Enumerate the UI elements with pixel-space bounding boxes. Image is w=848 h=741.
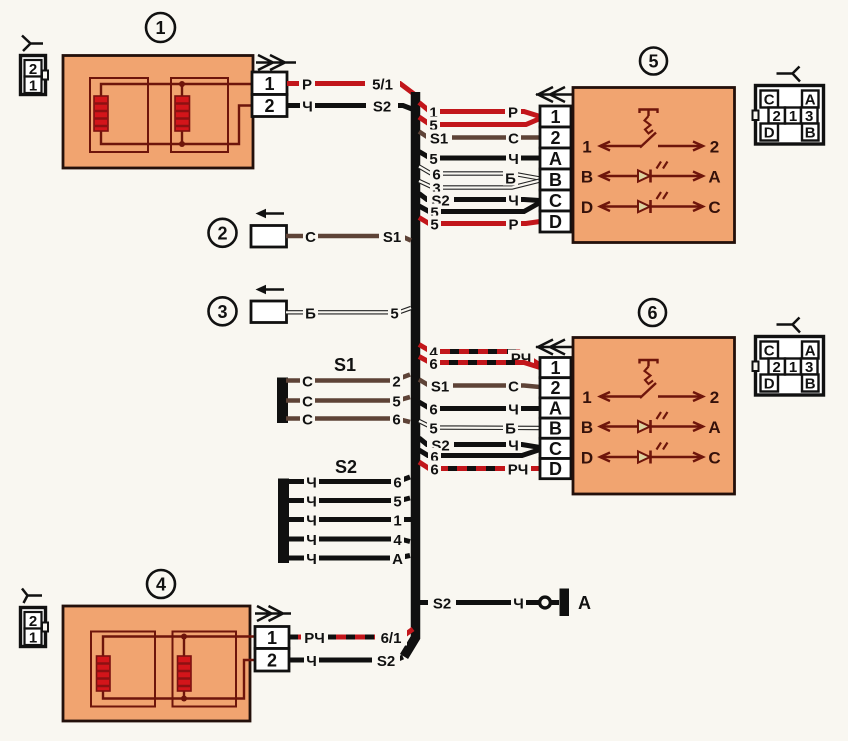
svg-text:6: 6 (429, 402, 437, 419)
actuator 4 inner housing left (91, 632, 155, 707)
svg-text:S1: S1 (334, 355, 356, 375)
svg-text:C: C (549, 439, 562, 459)
ground wire stub to body point (551, 600, 560, 605)
svg-text:B: B (549, 419, 562, 439)
svg-text:1: 1 (29, 78, 37, 95)
wire RCh (red/black) pin1 actuator4 to trunk node 6/1 (289, 629, 413, 648)
wire B (white) component3 to trunk node 5 (286, 304, 411, 322)
svg-text:Б: Б (505, 421, 516, 438)
wire C (grey) component2 to trunk node S1 (286, 228, 411, 247)
cell D (761, 124, 779, 141)
svg-text:С: С (302, 394, 313, 411)
wire 5 (black) trunk to switch5 pinA (419, 150, 540, 168)
wire S1 (grey) trunk to switch5 pin2 (419, 130, 540, 148)
connector of actuator 4, pin 1 (255, 627, 289, 649)
svg-text:С: С (708, 198, 720, 217)
svg-text:A: A (549, 398, 562, 418)
callout 5 (640, 48, 667, 75)
svg-text:5: 5 (393, 494, 401, 511)
svg-text:S1: S1 (431, 379, 449, 396)
mating connector face X4 (pins 2/1) bottom-left (21, 608, 49, 647)
switch 5 connector pin A (540, 148, 571, 169)
plug direction arrow of connector 4 (255, 606, 291, 621)
svg-text:S2: S2 (377, 653, 395, 670)
svg-text:5/1: 5/1 (372, 77, 393, 94)
wire P (pink) pin1 actuator1 to trunk node 5/1 (287, 75, 414, 95)
svg-text:Ч: Ч (513, 596, 524, 613)
splice S2 wire to trunk node 1 (black) (287, 512, 411, 530)
connector of actuator 1, pin 2 (252, 95, 287, 117)
cell A (802, 91, 819, 108)
svg-text:Р: Р (302, 77, 312, 94)
connector of actuator 4, pin 2 (255, 649, 289, 672)
svg-text:А: А (578, 593, 591, 613)
actuator 1 inner housing left (90, 78, 148, 152)
harness fork symbol bottom-left (22, 589, 42, 604)
svg-text:РЧ: РЧ (508, 462, 529, 479)
svg-text:Б: Б (505, 171, 516, 188)
svg-text:С: С (302, 412, 313, 429)
LED row D-C (600, 205, 703, 208)
spring zigzag (645, 116, 654, 134)
junction dots (181, 634, 187, 640)
svg-text:6/1: 6/1 (381, 630, 402, 647)
switch 6 connector pin 1 (540, 358, 571, 379)
wire 6 (white) trunk to switch5 pinB (419, 166, 540, 184)
winding L2 (178, 656, 192, 691)
svg-text:5: 5 (429, 421, 437, 438)
switch 5 connector pin 1 (540, 106, 571, 127)
svg-text:Ч: Ч (306, 532, 317, 549)
callout 6 (639, 299, 666, 326)
svg-text:S1: S1 (383, 229, 401, 246)
svg-text:6: 6 (392, 412, 400, 429)
splice S1 bus bar (277, 378, 288, 424)
wire 5 (pink) trunk to switch5 pin1 (419, 117, 540, 135)
svg-text:6: 6 (393, 475, 401, 492)
actuator 1 inner housing right (171, 78, 228, 152)
svg-text:Ч: Ч (508, 151, 519, 168)
wire 4 (red/black) trunk to switch6 pin1 (419, 344, 540, 368)
svg-text:2: 2 (550, 128, 560, 148)
wire S1 (grey) trunk to switch6 pin2 (419, 378, 540, 396)
body ground point A bar (560, 589, 570, 617)
svg-text:2: 2 (267, 651, 277, 671)
svg-text:РЧ: РЧ (304, 630, 325, 647)
splice S2 wire to trunk node A (black) (287, 550, 410, 568)
mating connector face of switch 5 (pins C A 2 1 3 D B) (753, 67, 824, 145)
svg-text:S2: S2 (335, 457, 357, 477)
svg-text:А: А (708, 168, 720, 187)
svg-text:1: 1 (29, 630, 37, 647)
svg-text:A: A (805, 92, 816, 109)
callout 4 (147, 570, 175, 598)
svg-text:2: 2 (550, 378, 560, 398)
cell B (802, 124, 819, 141)
contact row 1-2 (600, 145, 703, 148)
svg-text:Ч: Ч (508, 438, 519, 455)
svg-text:1: 1 (264, 74, 274, 94)
svg-text:5: 5 (429, 151, 437, 168)
svg-text:6: 6 (647, 303, 657, 323)
svg-text:С: С (508, 379, 519, 396)
actuator 1 top wire (101, 84, 252, 96)
splice S1 wire to trunk node 6 (grey) (286, 411, 410, 429)
switch 6 connector pin B (540, 418, 571, 439)
svg-text:4: 4 (156, 575, 166, 595)
svg-text:S1: S1 (430, 131, 448, 148)
svg-text:C: C (549, 191, 562, 211)
svg-text:Ч: Ч (306, 551, 317, 568)
switch 6 connector pin C (540, 438, 571, 459)
svg-text:1: 1 (550, 107, 560, 127)
svg-text:B: B (549, 170, 562, 190)
wire 6 (black) trunk to switch6 pinC (419, 448, 540, 466)
wire 5 (white) trunk to switch6 pinB (419, 420, 540, 438)
svg-text:4: 4 (393, 532, 402, 549)
svg-text:С: С (508, 131, 519, 148)
actuator 1 right branch wire (181, 84, 183, 144)
main harness trunk (404, 92, 416, 657)
switch 6 connector pin 2 (540, 378, 571, 399)
svg-text:1: 1 (550, 358, 560, 378)
central door-lock switch 5 body (573, 88, 735, 243)
winding L1 (97, 656, 111, 691)
component 3 box (illumination feed) (251, 285, 287, 323)
splice S2 wire to trunk node 4 (black) (287, 531, 410, 549)
svg-text:5: 5 (390, 305, 398, 322)
component 2 box (relay/fuse feed) (251, 209, 287, 247)
actuator 1 bottom wire (101, 106, 252, 145)
svg-text:1: 1 (393, 513, 401, 530)
svg-text:1: 1 (582, 138, 591, 157)
cell 1 (785, 108, 801, 124)
svg-text:3: 3 (805, 108, 813, 125)
wire 1 (pink) trunk to switch5 pin1 (419, 103, 540, 122)
plug direction arrow of switch 6 connector (536, 340, 573, 355)
splice S1 wire to trunk node 2 (grey) (286, 373, 410, 391)
wire 5 (black) trunk to switch5 pinC (419, 203, 540, 222)
svg-text:D: D (581, 198, 593, 217)
switch 5 connector pin B (540, 169, 571, 190)
svg-text:Ч: Ч (306, 513, 317, 530)
wire 5 (pink) trunk to switch5 pinD (419, 216, 540, 234)
wire 3 (white) trunk to switch5 pinB (419, 170, 540, 198)
switch 6 connector pin D (540, 459, 571, 480)
svg-text:A: A (549, 149, 562, 169)
svg-text:Р: Р (508, 217, 518, 234)
svg-text:5: 5 (430, 217, 438, 234)
callout 3 (209, 297, 237, 325)
winding L1 (94, 96, 108, 131)
wire Ch (black) pin2 actuator1 to trunk node S2 (287, 97, 412, 116)
svg-text:C: C (764, 92, 775, 109)
svg-text:2: 2 (264, 96, 274, 116)
junction dots (179, 81, 185, 87)
wire Ch (black) pin2 actuator4 to trunk end S2 (289, 652, 403, 671)
svg-text:2: 2 (710, 138, 719, 157)
door lock actuator 1 (front left door) (63, 56, 253, 169)
door-lock switch 6 body (573, 338, 735, 495)
connector of actuator 1, pin 1 (252, 72, 287, 95)
splice S2 wire to trunk node 5 (black) (287, 493, 410, 511)
switch 5 connector pin D (540, 211, 571, 232)
plug direction arrow of connector 1 (256, 55, 296, 70)
svg-text:2: 2 (773, 108, 781, 125)
wire S2 (black) trunk to switch5 pinC (419, 192, 540, 210)
svg-text:2: 2 (392, 374, 400, 391)
actuator 4 right branch wire (183, 637, 185, 699)
svg-text:D: D (549, 459, 562, 479)
svg-text:Ч: Ч (302, 99, 313, 116)
svg-text:S2: S2 (373, 99, 391, 116)
splice S2 bus bar (278, 479, 289, 564)
svg-text:С: С (305, 229, 316, 246)
svg-text:2: 2 (29, 61, 37, 78)
svg-text:Б: Б (305, 305, 316, 322)
switch 6 connector pin A (540, 398, 571, 419)
svg-text:Р: Р (508, 105, 518, 122)
harness fork symbol top-left (22, 36, 43, 52)
wire 6 (black) trunk to switch6 pinA (419, 401, 540, 419)
svg-text:3: 3 (217, 302, 227, 322)
svg-text:1: 1 (267, 628, 277, 648)
splice S2 wire to trunk node 6 (black) (287, 474, 410, 492)
svg-text:D: D (549, 212, 562, 232)
harness fork symbol (777, 67, 801, 82)
svg-text:S2: S2 (433, 596, 451, 613)
svg-text:5: 5 (648, 52, 658, 72)
actuator 4 top wire (103, 637, 255, 657)
cell 2 (769, 108, 786, 124)
switch lever (640, 133, 656, 148)
svg-text:1: 1 (789, 108, 797, 125)
plug direction arrow of switch 5 connector (536, 87, 573, 102)
switch 5 internals: button, contact 1-2, LEDs B-A and D-C (581, 110, 721, 218)
winding L2 (175, 96, 190, 131)
svg-text:Ч: Ч (508, 193, 519, 210)
wire 6 (red/black) trunk to switch6 pinD (419, 461, 540, 479)
svg-text:Ч: Ч (306, 653, 317, 670)
switch 5 connector pin 2 (540, 127, 571, 148)
wire 6 (red/black) trunk to switch6 pin1 (419, 355, 540, 373)
svg-text:6: 6 (429, 356, 437, 373)
actuator 4 bottom wire (103, 660, 255, 699)
svg-text:Ч: Ч (306, 475, 317, 492)
switch 5 connector pin C (540, 190, 571, 211)
svg-text:С: С (302, 374, 313, 391)
svg-text:2: 2 (217, 223, 227, 243)
ground eyelet ring (540, 597, 551, 608)
svg-text:2: 2 (29, 613, 37, 630)
mating connector face of switch 6 (pins C A 2 1 3 D B) (753, 318, 824, 396)
svg-text:Ч: Ч (508, 402, 519, 419)
svg-text:5: 5 (392, 394, 400, 411)
svg-text:B: B (805, 125, 816, 142)
callout 1 (146, 13, 175, 42)
svg-text:1: 1 (155, 18, 165, 38)
splice S1 wire to trunk node 5 (grey) (286, 393, 410, 411)
wire S2 (black) trunk to switch6 pinC (419, 437, 540, 455)
LED row B-A (600, 175, 703, 178)
svg-text:A: A (392, 551, 403, 568)
door lock actuator 4 (front right door) (63, 606, 255, 721)
switch 6 internals: button, contact 1-2, LEDs B-A and D-C (581, 360, 721, 468)
actuator 4 inner housing right (173, 632, 237, 707)
cell 3 (801, 108, 818, 124)
svg-text:В: В (581, 168, 593, 187)
svg-text:6: 6 (430, 462, 438, 479)
svg-text:Ч: Ч (306, 494, 317, 511)
body ground wire S2 to point A (black) (420, 594, 539, 613)
svg-text:D: D (764, 125, 775, 142)
callout 2 (209, 219, 237, 247)
button actuator T (640, 110, 658, 117)
mating connector face X1 (pins 2/1) top-left (21, 56, 49, 95)
cell C (761, 91, 779, 108)
